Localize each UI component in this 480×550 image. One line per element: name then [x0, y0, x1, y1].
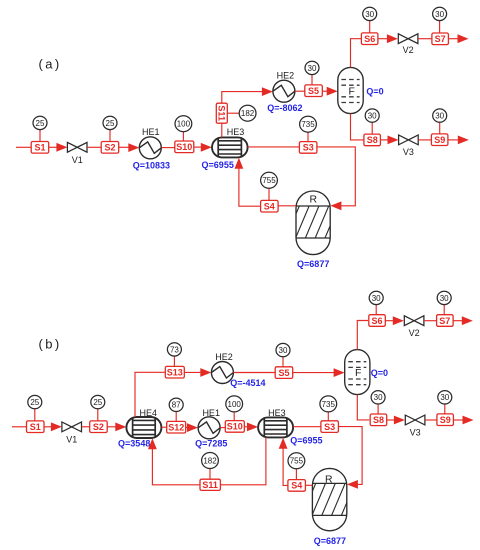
svg-text:V3: V3 — [410, 428, 421, 438]
svg-text:V2: V2 — [403, 45, 414, 55]
Q label of reactor R (a) — [297, 259, 329, 269]
stream box S1 (b) — [27, 421, 45, 433]
wire S8 to V3 with arrow (a) — [381, 136, 399, 145]
temperature indicator 30 on S5 (b) — [276, 343, 290, 366]
svg-text:Q=6955: Q=6955 — [202, 160, 234, 170]
svg-text:S1: S1 — [30, 422, 41, 432]
svg-text:S2: S2 — [104, 143, 115, 153]
svg-text:S7: S7 — [439, 316, 450, 326]
svg-text:30: 30 — [435, 10, 444, 19]
svg-text:R: R — [309, 194, 317, 205]
wire S2 to HE1 with arrow (a) — [119, 143, 140, 152]
stream box S10 (b) — [225, 421, 244, 433]
wire S11 to temperature indicator (a) — [227, 112, 239, 114]
wire S3 to reactor R with arrow (b) — [338, 427, 362, 489]
heat exchanger HE1 (a) — [139, 127, 161, 159]
temperature indicator 735 on S3 (a) — [300, 116, 317, 141]
svg-text:25: 25 — [36, 119, 45, 128]
temperature indicator 25 on S2 (a) — [103, 116, 117, 141]
temperature indicator 25 on S2 (b) — [91, 395, 105, 421]
wire S6 to V2 with arrow (b) — [385, 316, 404, 325]
svg-text:Q=7285: Q=7285 — [195, 439, 227, 449]
valve V1 (a) — [67, 142, 87, 165]
Q label of flash drum F (a) — [366, 86, 383, 96]
svg-text:S11: S11 — [217, 105, 227, 121]
svg-text:V3: V3 — [403, 147, 414, 157]
svg-text:S3: S3 — [324, 422, 335, 432]
wire flash drum liquid to S8 (b) — [357, 395, 369, 420]
stream box S13 (b) — [165, 366, 184, 378]
svg-text:25: 25 — [93, 398, 102, 407]
Q label of HE1 (b) — [195, 439, 227, 449]
temperature indicator 30 on S9 (b) — [438, 391, 452, 414]
svg-text:S8: S8 — [373, 415, 384, 425]
valve V2 (a) — [398, 34, 418, 55]
wire S11 to HE4 shell inlet with arrow (b) — [148, 438, 200, 485]
svg-text:F: F — [349, 87, 355, 98]
Q label of HE3 (b) — [290, 435, 322, 445]
temperature indicator 30 on S5 (a) — [305, 61, 319, 85]
valve V1 (b) — [62, 422, 82, 445]
svg-text:S8: S8 — [367, 135, 378, 145]
stream box S8 (a) — [364, 134, 381, 146]
Q label of HE2 (a) — [267, 103, 302, 113]
svg-text:30: 30 — [440, 393, 449, 402]
wire S9 outlet with arrow (b) — [453, 416, 473, 425]
valve V3 (a) — [399, 135, 419, 157]
svg-text:HE3: HE3 — [268, 408, 286, 418]
temperature indicator 30 on S8 (b) — [371, 391, 385, 414]
Q label of HE1 (a) — [133, 160, 170, 170]
svg-text:V1: V1 — [66, 435, 77, 445]
Q label of HE3 (a) — [202, 160, 234, 170]
wire V3 to S9 (b) — [425, 419, 437, 421]
stream box S4 (b) — [288, 480, 306, 492]
wire HE2 to S5 (a) — [295, 90, 305, 92]
stream box S2 (b) — [90, 421, 108, 433]
temperature indicator 755 on S4 (a) — [261, 172, 278, 200]
wire S4 to HE3 shell inlet with arrow (b) — [279, 438, 288, 486]
wire S7 outlet with arrow (b) — [453, 316, 473, 325]
wire HE3 to S3 (b) — [293, 426, 321, 428]
reactor R (a) — [276, 191, 339, 255]
wire S2 to HE4 with arrow (b) — [107, 423, 126, 432]
temperature indicator 30 on S7 (b) — [437, 291, 451, 315]
wire S4 to HE3 shell inlet with arrow (a) — [235, 158, 261, 207]
stream box S6 (a) — [361, 33, 378, 45]
svg-text:S12: S12 — [168, 423, 184, 433]
wire feed into S1 (b) — [12, 426, 26, 428]
flash drum F (b) — [345, 350, 370, 395]
svg-text:182: 182 — [203, 456, 217, 465]
heat exchanger HE2 (b) — [211, 352, 233, 384]
svg-text:HE1: HE1 — [202, 408, 220, 418]
svg-text:87: 87 — [172, 401, 181, 410]
svg-text:Q=-8062: Q=-8062 — [267, 103, 302, 113]
svg-text:Q=6877: Q=6877 — [297, 259, 329, 269]
temperature indicator 182 on S11 (b) — [202, 453, 219, 480]
svg-text:Q=3548: Q=3548 — [118, 439, 150, 449]
svg-text:HE3: HE3 — [227, 127, 245, 137]
heat exchanger HE1 (b) — [198, 408, 220, 439]
svg-text:S3: S3 — [303, 143, 314, 153]
svg-text:100: 100 — [228, 400, 242, 409]
svg-text:30: 30 — [368, 112, 377, 121]
svg-text:S13: S13 — [167, 368, 183, 378]
wire S1 to V1 with arrow (a) — [49, 143, 68, 152]
stream box S12 (b) — [167, 421, 186, 433]
valve V2 (b) — [404, 316, 424, 338]
svg-text:182: 182 — [241, 109, 255, 118]
wire S7 outlet with arrow (a) — [448, 34, 468, 43]
wire HE1 to S10 (b) — [220, 427, 226, 429]
temperature indicator 25 on S1 (a) — [33, 116, 47, 141]
svg-text:S2: S2 — [93, 422, 104, 432]
svg-text:S6: S6 — [371, 316, 382, 326]
svg-text:735: 735 — [301, 120, 315, 129]
temperature indicator 30 on S6 (b) — [369, 291, 383, 315]
svg-text:S11: S11 — [202, 480, 218, 490]
wire S6 to V2 with arrow (a) — [378, 34, 398, 43]
svg-text:S6: S6 — [364, 34, 375, 44]
wire S5 to flash drum F with arrow (b) — [293, 368, 345, 377]
wire S3 to reactor R with arrow (a) — [317, 147, 355, 210]
wire S5 to flash drum F with arrow (a) — [323, 87, 338, 96]
stream box S6 (b) — [369, 315, 386, 327]
wire reactor R to S4 (b) — [306, 484, 313, 486]
wire V3 to S9 (a) — [418, 139, 431, 141]
stream box S11 (b) — [200, 479, 220, 490]
reactor R (b) — [292, 468, 355, 530]
stream box S5 (b) — [275, 367, 293, 379]
stream box S3 (a) — [299, 142, 317, 154]
wire reactor R to S4 (a) — [278, 205, 296, 207]
heat exchanger HE3 (a) — [212, 127, 248, 157]
stream box S4 (a) — [261, 200, 279, 212]
wire S12 to HE1 with arrow (b) — [186, 423, 198, 432]
svg-text:30: 30 — [372, 294, 381, 303]
svg-text:S4: S4 — [291, 481, 302, 491]
svg-text:Q=6955: Q=6955 — [290, 435, 322, 445]
temperature indicator 100 on S10 (a) — [175, 116, 192, 141]
svg-text:735: 735 — [322, 400, 336, 409]
svg-text:755: 755 — [262, 176, 276, 185]
stream box S1 (a) — [31, 142, 49, 154]
svg-text:100: 100 — [177, 120, 191, 129]
temperature indicator 73 on S13 (b) — [167, 343, 181, 367]
stream box S9 (b) — [437, 414, 454, 426]
wire V1 to S2 (b) — [82, 426, 90, 428]
svg-text:(b): (b) — [39, 337, 62, 352]
heat exchanger HE3 (b) — [258, 408, 293, 438]
temperature indicator 30 on S7 (a) — [433, 7, 447, 33]
svg-text:Q=0: Q=0 — [366, 86, 383, 96]
wire S11 to HE2 with arrow (a) — [222, 87, 273, 103]
svg-text:R: R — [325, 475, 333, 486]
wire flash drum liquid to S8 (a) — [351, 114, 364, 140]
wire V2 to S7 (a) — [418, 38, 432, 40]
Q label of HE2 (b) — [230, 378, 265, 388]
wire S8 to V3 with arrow (b) — [387, 416, 405, 425]
stream box S5 (a) — [305, 85, 323, 97]
stream box S7 (a) — [432, 33, 449, 45]
temperature indicator 87 on S12 (b) — [169, 398, 183, 421]
Q label of HE4 (b) — [118, 439, 150, 449]
svg-text:S10: S10 — [176, 142, 192, 152]
wire HE4 shell outlet to S13 (b) — [135, 372, 166, 417]
temperature indicator 30 on S8 (a) — [365, 109, 379, 134]
heat exchanger HE2 (a) — [273, 70, 295, 102]
wire HE1 to S10 (a) — [161, 147, 175, 149]
temperature indicator 182 beside S11 (a) — [239, 105, 256, 121]
wire flash drum vapor to S6 (a) — [351, 39, 362, 68]
wire S10 to HE3 with arrow (b) — [244, 423, 258, 432]
Q label of reactor R (b) — [314, 536, 346, 546]
wire S13 to HE2 with arrow (b) — [184, 368, 211, 377]
svg-text:755: 755 — [290, 457, 304, 466]
stream box S3 (b) — [321, 421, 339, 433]
svg-text:Q=10833: Q=10833 — [133, 160, 170, 170]
heat exchanger HE4 (b) — [126, 408, 161, 438]
svg-text:25: 25 — [30, 398, 39, 407]
stream box S7 (b) — [437, 315, 454, 327]
svg-text:V1: V1 — [72, 155, 83, 165]
temperature indicator 30 on S9 (a) — [433, 109, 447, 134]
svg-text:S7: S7 — [435, 34, 446, 44]
wire V1 to S2 (a) — [87, 146, 101, 148]
stream box S8 (b) — [370, 414, 387, 426]
valve V3 (b) — [405, 415, 425, 438]
svg-text:S1: S1 — [34, 143, 45, 153]
wire V2 to S7 (b) — [424, 320, 436, 322]
flash drum F (a) — [338, 67, 363, 113]
svg-text:25: 25 — [106, 119, 115, 128]
svg-text:S9: S9 — [440, 415, 451, 425]
svg-text:HE4: HE4 — [140, 408, 158, 418]
svg-text:30: 30 — [308, 64, 317, 73]
svg-text:F: F — [355, 368, 361, 379]
wire S10 to HE3 with arrow (a) — [194, 143, 212, 152]
svg-text:S4: S4 — [264, 202, 275, 212]
svg-text:HE2: HE2 — [215, 352, 233, 362]
wire HE4 to S12 (b) — [161, 426, 167, 428]
svg-text:HE2: HE2 — [277, 70, 295, 80]
temperature indicator 100 on S10 (b) — [226, 396, 243, 421]
svg-text:30: 30 — [365, 10, 374, 19]
stream box S11 vertical (a) — [216, 103, 227, 123]
stream box S9 (a) — [431, 134, 448, 146]
temperature indicator 755 on S4 (b) — [288, 453, 305, 480]
svg-text:HE1: HE1 — [142, 127, 160, 137]
svg-text:Q=0: Q=0 — [371, 368, 388, 378]
section label (a) — [39, 57, 62, 72]
svg-text:30: 30 — [435, 112, 444, 121]
stream box S10 (a) — [175, 141, 194, 153]
svg-text:30: 30 — [374, 393, 383, 402]
svg-text:30: 30 — [279, 346, 288, 355]
wire HE2 to S5 (b) — [233, 372, 275, 374]
svg-text:S5: S5 — [278, 368, 289, 378]
wire flash drum vapor to S6 (b) — [357, 321, 368, 350]
svg-text:Q=-4514: Q=-4514 — [230, 378, 265, 388]
temperature indicator 25 on S1 (b) — [28, 395, 42, 421]
svg-text:(a): (a) — [39, 57, 62, 72]
section label (b) — [39, 337, 62, 352]
svg-text:S9: S9 — [434, 135, 445, 145]
wire S1 to V1 with arrow (b) — [44, 422, 62, 431]
svg-text:S5: S5 — [308, 86, 319, 96]
wire HE3 shell outlet to S11 (a) — [221, 123, 223, 137]
svg-text:30: 30 — [440, 294, 449, 303]
svg-text:Q=6877: Q=6877 — [314, 536, 346, 546]
temperature indicator 30 on S6 (a) — [363, 7, 377, 33]
wire S9 outlet with arrow (a) — [448, 136, 468, 145]
svg-text:S10: S10 — [227, 422, 243, 432]
wire HE3 to S3 (a) — [248, 146, 300, 148]
stream box S2 (a) — [101, 142, 119, 154]
svg-text:73: 73 — [170, 345, 179, 354]
temperature indicator 735 on S3 (b) — [320, 396, 337, 421]
svg-text:V2: V2 — [409, 328, 420, 338]
wire feed into S1 (a) — [16, 146, 31, 148]
Q label of flash drum F (b) — [371, 368, 388, 378]
wire HE3 shell outlet to S11 (b) — [220, 437, 266, 484]
